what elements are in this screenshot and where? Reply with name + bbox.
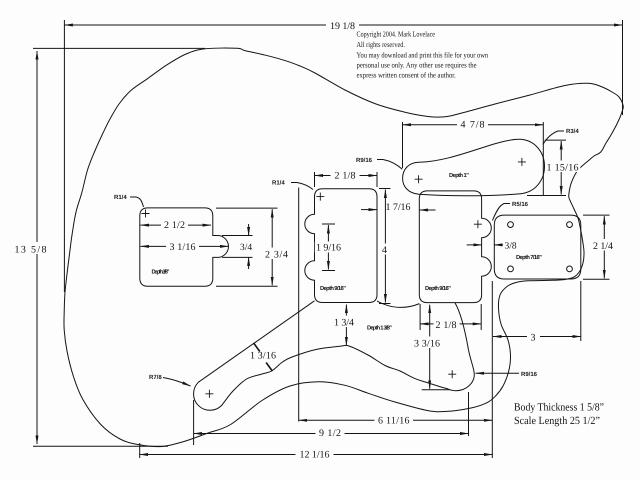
svg-text:All rights reserved.: All rights reserved. <box>357 40 406 49</box>
neck pocket cavity <box>140 208 229 286</box>
plate screw hole bottom-left <box>508 266 514 272</box>
svg-text:1 15/16: 1 15/16 <box>547 163 579 174</box>
svg-text:1 3/16: 1 3/16 <box>250 351 276 362</box>
svg-text:R1/4: R1/4 <box>272 180 285 187</box>
svg-text:12 1/16: 12 1/16 <box>300 449 330 460</box>
dimension 1 3/4 <box>333 305 355 346</box>
copyright text block <box>357 30 489 80</box>
svg-text:1 9/16: 1 9/16 <box>316 242 341 253</box>
vibrato rout depth 1 inch <box>403 139 545 196</box>
neck pickup cavity <box>305 189 377 303</box>
svg-text:R3/4: R3/4 <box>566 128 579 135</box>
dimension 3 plate width <box>493 281 581 344</box>
svg-text:Copyright 2004. Mark Lovelace: Copyright 2004. Mark Lovelace <box>357 30 436 39</box>
vibrato rout cross right <box>518 158 526 166</box>
svg-text:Depth 9/16”: Depth 9/16” <box>425 285 451 292</box>
svg-text:express written consent of the: express written consent of the author. <box>357 70 456 79</box>
radius label R9/16 vibrato rout <box>356 157 402 169</box>
dimension 2 1/2 neck pocket <box>141 220 212 231</box>
dimension 2 1/8 bridge pickup <box>420 304 481 331</box>
svg-text:19 1/8: 19 1/8 <box>330 21 355 32</box>
svg-text:1 3/4: 1 3/4 <box>334 317 354 328</box>
dimension 1 9/16 ear spacing <box>315 224 342 271</box>
dimension 3 1/16 neck pocket <box>141 242 229 253</box>
svg-text:2 3/4: 2 3/4 <box>265 249 288 260</box>
dimension 3 3/16 <box>412 305 449 390</box>
svg-text:9 1/2: 9 1/2 <box>319 428 341 439</box>
bridge pickup locating cross <box>474 220 482 228</box>
radius label R1/4 neck pickup <box>272 180 313 190</box>
svg-text:2 1/2: 2 1/2 <box>164 220 185 231</box>
dimension 19 1/8 overall width <box>64 19 622 293</box>
svg-text:3 1/16: 3 1/16 <box>170 242 196 253</box>
svg-text:R5/16: R5/16 <box>512 201 529 208</box>
radius label R3/4 <box>543 128 579 145</box>
dimension 1 3/16 rout width <box>250 343 276 371</box>
dimension 2 1/8 neck pickup <box>315 170 378 187</box>
radius label R5/16 plate <box>493 201 529 221</box>
tremolo plate recess <box>494 215 581 279</box>
plate screw hole bottom-right <box>567 266 573 272</box>
svg-text:3/4: 3/4 <box>240 243 252 253</box>
svg-text:Scale Length 25 1/2”: Scale Length 25 1/2” <box>514 415 600 427</box>
svg-text:3 3/16: 3 3/16 <box>414 338 440 349</box>
svg-text:You may download and print thi: You may download and print this file for… <box>357 50 489 59</box>
svg-text:R9/16: R9/16 <box>356 157 373 164</box>
dimension 4 7/8 vibrato rout <box>403 120 544 197</box>
svg-text:4 7/8: 4 7/8 <box>461 120 485 131</box>
control cavity cross left <box>205 390 213 398</box>
control cavity connecting sag <box>377 301 419 308</box>
radius label R9/16 control cavity <box>476 371 538 378</box>
vibrato rout cross left <box>415 175 423 183</box>
svg-text:personal use only. Any other: personal use only. Any other use require… <box>357 61 478 70</box>
svg-text:3/8: 3/8 <box>505 242 517 252</box>
svg-text:1 7/16: 1 7/16 <box>386 202 411 213</box>
svg-text:Depth 3/8”: Depth 3/8” <box>152 269 170 276</box>
neck pickup locating cross <box>316 193 324 201</box>
dimension 9 1/2 <box>194 392 469 445</box>
radius label R1/4 neck pocket <box>114 194 144 207</box>
dimension 3/8 gap <box>467 242 517 252</box>
svg-text:Depth 1”: Depth 1” <box>449 172 469 179</box>
dimension 13 5/8 overall height <box>13 48 205 446</box>
control cavity cross right <box>448 370 456 378</box>
body outline <box>64 48 623 447</box>
plate screw hole top-right <box>567 222 573 228</box>
radius label R7/8 control cavity <box>149 374 191 386</box>
plate screw hole top-left <box>508 222 514 228</box>
dimension 12 1/16 <box>140 443 493 460</box>
dimension 2 1/4 plate height <box>583 215 617 279</box>
svg-text:3: 3 <box>531 333 536 344</box>
dimension 6 11/16 <box>299 188 493 459</box>
svg-text:6 11/16: 6 11/16 <box>378 415 410 426</box>
svg-text:R7/8: R7/8 <box>149 374 162 381</box>
dimension 4 cavity height <box>379 189 391 304</box>
svg-text:Depth 9/16”: Depth 9/16” <box>320 285 346 292</box>
svg-text:4: 4 <box>382 245 387 256</box>
dimension 1 7/16 gap <box>361 202 436 213</box>
neck pocket locating cross <box>142 210 150 218</box>
body thickness and scale length note <box>514 402 604 428</box>
svg-text:2 1/8: 2 1/8 <box>335 170 356 181</box>
svg-text:13 5/8: 13 5/8 <box>15 244 47 255</box>
svg-text:Depth 7/16”: Depth 7/16” <box>516 254 542 261</box>
svg-text:Depth 1 3/8”: Depth 1 3/8” <box>367 325 392 332</box>
dimension 3/4 bump <box>222 224 253 269</box>
bridge pickup cavity <box>419 191 491 303</box>
svg-text:R1/4: R1/4 <box>114 194 127 201</box>
control cavity rout <box>194 301 475 411</box>
dimension 1 15/16 <box>527 140 580 195</box>
svg-text:R9/16: R9/16 <box>521 371 538 378</box>
dimension 2 3/4 pocket height <box>216 208 290 286</box>
svg-text:2 1/4: 2 1/4 <box>593 241 613 252</box>
svg-text:Body Thickness 1 5/8”: Body Thickness 1 5/8” <box>514 402 604 414</box>
svg-text:2 1/8: 2 1/8 <box>436 320 457 331</box>
